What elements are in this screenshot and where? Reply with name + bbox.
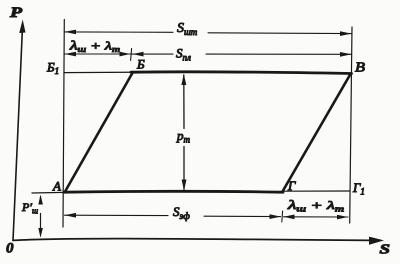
- svg-text:А: А: [52, 179, 61, 194]
- svg-text:Г: Г: [287, 178, 296, 193]
- dimension S_pl line: [132, 53, 352, 55]
- dimension S_sht left arrow: [65, 30, 77, 35]
- dimension p_t line: [183, 75, 185, 190]
- dimension P'sh line: [40, 197, 42, 234]
- svg-text:S: S: [380, 243, 391, 258]
- P axis: [13, 27, 23, 240]
- dimension lambda bottom line: [284, 216, 349, 218]
- dimension P'sh up arrow: [38, 195, 43, 205]
- left slant side A-B: [65, 73, 133, 192]
- dimension S_ef right arrow: [270, 214, 281, 219]
- dimension S_sht line: [65, 32, 352, 34]
- top thin segment B1-B: [64, 71, 133, 73]
- P axis arrowhead: [19, 20, 25, 34]
- A-level extension line left: [32, 191, 64, 194]
- dimension p_t down arrow: [182, 180, 187, 191]
- svg-text:P: P: [10, 5, 23, 21]
- bottom thin segment G-G1: [282, 190, 350, 192]
- svg-text:0: 0: [6, 241, 14, 257]
- S axis arrowhead: [369, 237, 384, 245]
- dimension lambda top right arrow: [120, 52, 131, 57]
- tick below B: [131, 49, 132, 61]
- S axis: [13, 239, 372, 241]
- dimension S_ef line: [65, 215, 281, 216]
- tick below G: [281, 211, 284, 222]
- dimension lambda top line: [65, 53, 131, 55]
- dimension lambda top left arrow: [65, 52, 77, 57]
- bottom thick side A-G: [64, 190, 283, 194]
- dimension S_ef left arrow: [65, 213, 77, 218]
- dimension lambda bottom left arrow: [284, 215, 295, 220]
- svg-text:В: В: [355, 61, 366, 76]
- right slant side G-V: [282, 74, 350, 192]
- dimension lambda bottom right arrow: [337, 215, 348, 220]
- left extension line: [63, 20, 64, 228]
- top thick side B-V: [131, 72, 352, 74]
- dimension S_pl right arrow: [340, 52, 352, 57]
- dimension P'sh down arrow: [38, 228, 43, 238]
- dimension S_sht right arrow: [340, 31, 352, 36]
- dimension p_t up arrow: [181, 74, 186, 85]
- right extension line: [350, 27, 352, 223]
- svg-text:Б: Б: [136, 57, 145, 72]
- dimension S_pl left arrow: [133, 52, 144, 57]
